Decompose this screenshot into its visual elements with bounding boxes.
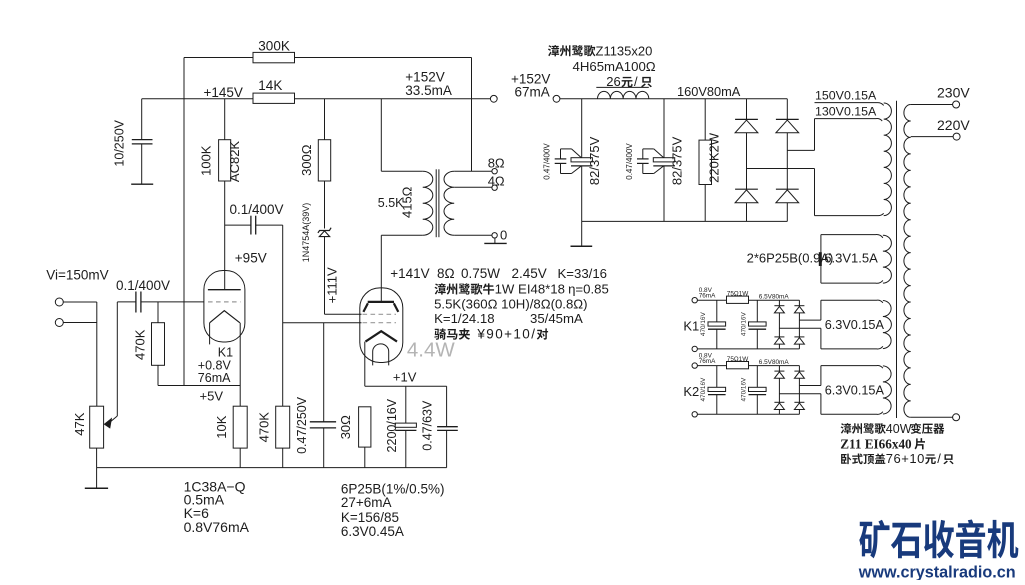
svg-text:www.crystalradio.cn: www.crystalradio.cn: [858, 563, 1016, 580]
svg-text:75Ω1W: 75Ω1W: [727, 291, 749, 298]
svg-text:Z11 EI66x40: Z11 EI66x40: [840, 436, 912, 451]
svg-text:2*6P25B(0.9A): 2*6P25B(0.9A): [747, 251, 834, 266]
svg-text:Z1135x20: Z1135x20: [596, 43, 653, 58]
svg-text:+111V: +111V: [324, 267, 339, 303]
svg-text:+1V: +1V: [393, 370, 417, 385]
svg-text:K1: K1: [683, 318, 699, 333]
svg-text:8Ω: 8Ω: [488, 155, 505, 170]
svg-text:76+10: 76+10: [886, 451, 925, 466]
svg-text:6.3V0.45A: 6.3V0.45A: [341, 524, 404, 539]
svg-text:470K: 470K: [257, 412, 272, 443]
svg-text:27+6mA: 27+6mA: [341, 495, 392, 510]
svg-text:470/16V: 470/16V: [700, 377, 707, 402]
svg-text:67mA: 67mA: [515, 85, 550, 100]
svg-text:K=156/85: K=156/85: [341, 510, 399, 525]
svg-text:160V80mA: 160V80mA: [677, 84, 741, 99]
svg-text:82/375V: 82/375V: [587, 136, 602, 185]
svg-text:1W EI48*18: 1W EI48*18: [495, 282, 565, 297]
svg-text:0.47/400V: 0.47/400V: [543, 143, 552, 180]
svg-text:100K: 100K: [199, 145, 214, 176]
svg-text:+141V: +141V: [390, 266, 429, 281]
svg-text:η=0.85: η=0.85: [568, 282, 609, 297]
svg-text:10K: 10K: [214, 415, 229, 438]
svg-text:/: /: [937, 451, 941, 466]
svg-text:¥90+10/: ¥90+10/: [476, 327, 536, 342]
svg-text:470K: 470K: [133, 329, 148, 360]
svg-text:220K2W: 220K2W: [706, 132, 721, 183]
svg-text:AC82K: AC82K: [227, 141, 242, 183]
svg-text:150V0.15A: 150V0.15A: [815, 89, 877, 103]
svg-text:4Ω: 4Ω: [488, 174, 505, 189]
svg-text:0.8V76mA: 0.8V76mA: [184, 519, 250, 535]
svg-text:K=33/16: K=33/16: [558, 266, 608, 281]
svg-text:0.47/250V: 0.47/250V: [295, 396, 309, 454]
svg-text:+145V: +145V: [204, 85, 243, 100]
svg-text:4H65mA100Ω: 4H65mA100Ω: [573, 59, 656, 74]
svg-text:35/45mA: 35/45mA: [530, 311, 583, 326]
svg-text:82/375V: 82/375V: [669, 136, 684, 185]
svg-text:0.1/400V: 0.1/400V: [116, 278, 170, 293]
svg-text:220V: 220V: [937, 117, 970, 133]
svg-text:0.1/400V: 0.1/400V: [230, 202, 284, 217]
svg-text:5.5K(360Ω 10H)/8Ω(0.8Ω): 5.5K(360Ω 10H)/8Ω(0.8Ω): [434, 296, 587, 311]
svg-text:470/16V: 470/16V: [741, 312, 748, 337]
svg-text:K=1/24.18: K=1/24.18: [434, 311, 495, 326]
svg-text:0: 0: [500, 227, 507, 242]
svg-text:76mA: 76mA: [699, 293, 716, 300]
svg-text:6.5V80mA: 6.5V80mA: [759, 294, 790, 301]
svg-text:6.3V0.15A: 6.3V0.15A: [825, 384, 885, 398]
svg-text:8Ω: 8Ω: [437, 266, 455, 281]
svg-text:130V0.15A: 130V0.15A: [815, 105, 877, 119]
svg-text:10/250V: 10/250V: [113, 119, 127, 166]
svg-text:300K: 300K: [258, 38, 290, 53]
svg-text:0.47/63V: 0.47/63V: [421, 400, 435, 451]
svg-text:415Ω: 415Ω: [400, 186, 415, 218]
svg-text:33.5mA: 33.5mA: [405, 83, 452, 98]
svg-text:76mA: 76mA: [198, 371, 231, 385]
svg-text:Vi=150mV: Vi=150mV: [46, 268, 108, 283]
svg-text:2.45V: 2.45V: [512, 266, 547, 281]
svg-text:+95V: +95V: [235, 250, 267, 265]
svg-text:2200/16V: 2200/16V: [385, 398, 399, 452]
svg-text:470/16V: 470/16V: [700, 312, 707, 337]
svg-text:75Ω1W: 75Ω1W: [727, 356, 749, 363]
svg-text:K1: K1: [218, 346, 233, 360]
svg-text:230V: 230V: [937, 84, 970, 100]
svg-text:40W: 40W: [886, 422, 912, 436]
svg-text:K2: K2: [683, 384, 699, 399]
svg-text:6.5V80mA: 6.5V80mA: [759, 359, 790, 366]
svg-text:1N4754A(39V): 1N4754A(39V): [301, 203, 311, 263]
svg-text:6.3V0.15A: 6.3V0.15A: [825, 318, 885, 332]
svg-text:300Ω: 300Ω: [299, 144, 314, 176]
svg-text:26: 26: [606, 74, 620, 89]
svg-text:14K: 14K: [258, 78, 282, 93]
svg-text:+5V: +5V: [200, 388, 224, 403]
svg-text:0.47/400V: 0.47/400V: [625, 143, 634, 180]
svg-text:47K: 47K: [72, 412, 87, 435]
svg-text:/: /: [634, 74, 638, 89]
svg-text:0.75W: 0.75W: [461, 266, 500, 281]
svg-text:6.3V1.5A: 6.3V1.5A: [824, 250, 878, 265]
svg-text:4.4W: 4.4W: [407, 339, 455, 362]
svg-text:30Ω: 30Ω: [338, 415, 353, 439]
svg-text:76mA: 76mA: [699, 358, 716, 365]
svg-text:470/16V: 470/16V: [741, 377, 748, 402]
